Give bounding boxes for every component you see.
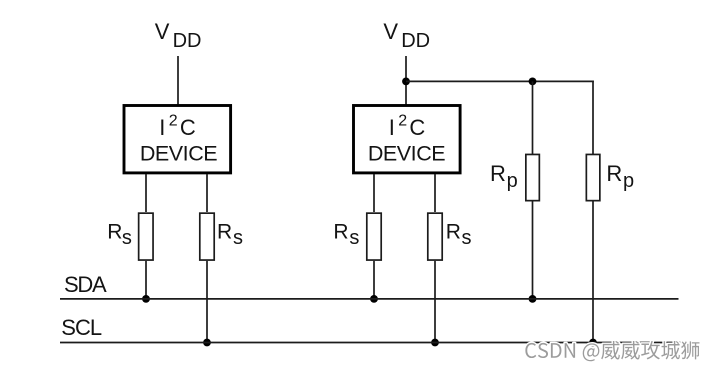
resistor Rs1 [139, 213, 153, 260]
I2C device U1 [124, 106, 231, 173]
svg-text:2: 2 [398, 113, 407, 130]
resistor Rp1 [526, 154, 540, 200]
wire U2 SCL pin to Rs4 [434, 174, 436, 212]
svg-text:R: R [217, 221, 232, 244]
svg-text:R: R [606, 161, 622, 186]
svg-text:s: s [462, 227, 472, 249]
wire VDD rail down to Rp1 [532, 81, 534, 154]
wire U2 SDA pin to Rs3 [373, 174, 375, 212]
junction Rs1 / SDA [142, 295, 150, 303]
junction Rs2 / SCL [203, 339, 211, 347]
svg-text:C: C [180, 115, 196, 140]
label Rs3 [333, 221, 359, 249]
junction Rp2 / SCL [589, 339, 597, 347]
resistor Rs2 [200, 213, 214, 260]
junction Rp1 / SDA [529, 295, 537, 303]
svg-text:R: R [107, 221, 122, 244]
svg-text:DD: DD [173, 30, 202, 52]
svg-text:SCL: SCL [61, 315, 102, 340]
power VDD label (right) [383, 19, 430, 52]
svg-text:p: p [507, 170, 518, 192]
svg-text:DEVICE: DEVICE [140, 142, 217, 166]
svg-text:C: C [409, 115, 425, 140]
svg-text:DEVICE: DEVICE [368, 142, 445, 166]
resistor Rp2 [586, 154, 600, 200]
junction VDD rail / Rp1 branch [529, 78, 537, 86]
I2C device U2 [354, 106, 461, 173]
svg-text:V: V [383, 19, 398, 44]
svg-text:V: V [155, 19, 170, 44]
wire Rs3 to SDA [373, 261, 375, 299]
power VDD label (left) [155, 19, 202, 52]
svg-text:DD: DD [401, 30, 430, 52]
svg-text:s: s [233, 227, 243, 249]
wire U1 SDA pin to Rs1 [145, 174, 147, 212]
label Rs1 [107, 221, 132, 249]
svg-text:R: R [333, 221, 348, 244]
svg-text:p: p [623, 170, 634, 192]
resistor Rs4 [428, 213, 442, 260]
wire VDD right down to U2 [405, 56, 407, 105]
label Rp1 [490, 161, 518, 192]
wire U1 SCL pin to Rs2 [206, 174, 208, 212]
wire VDD rail across to Rp2 corner [406, 80, 594, 82]
svg-text:I: I [389, 115, 395, 140]
svg-text:s: s [122, 227, 132, 249]
svg-text:s: s [349, 227, 359, 249]
label Rp2 [606, 161, 634, 192]
resistor Rs3 [367, 213, 381, 260]
wire Rp2 down across SDA to SCL [592, 201, 594, 342]
wire Rs2 down across SDA to SCL [206, 261, 208, 343]
svg-text:2: 2 [169, 113, 178, 130]
junction Rs4 / SCL [431, 339, 439, 347]
wire VDD rail corner down to Rp2 [592, 81, 594, 154]
svg-text:R: R [446, 221, 461, 244]
wire Rp1 to SDA [532, 201, 534, 299]
label Rs2 [217, 221, 243, 249]
label Rs4 [446, 221, 472, 249]
node VDD rail junction at supply [402, 78, 410, 86]
watermark [525, 341, 699, 361]
wire VDD left down to U1 [177, 56, 179, 105]
svg-text:I: I [159, 115, 165, 140]
net SDA bus line [60, 298, 679, 300]
wire Rs1 to SDA [145, 261, 147, 299]
svg-text:SDA: SDA [64, 272, 107, 297]
wire Rs4 down across SDA to SCL [434, 261, 436, 343]
svg-text:R: R [490, 161, 506, 186]
net SCL bus line [60, 342, 681, 344]
junction Rs3 / SDA [370, 295, 378, 303]
